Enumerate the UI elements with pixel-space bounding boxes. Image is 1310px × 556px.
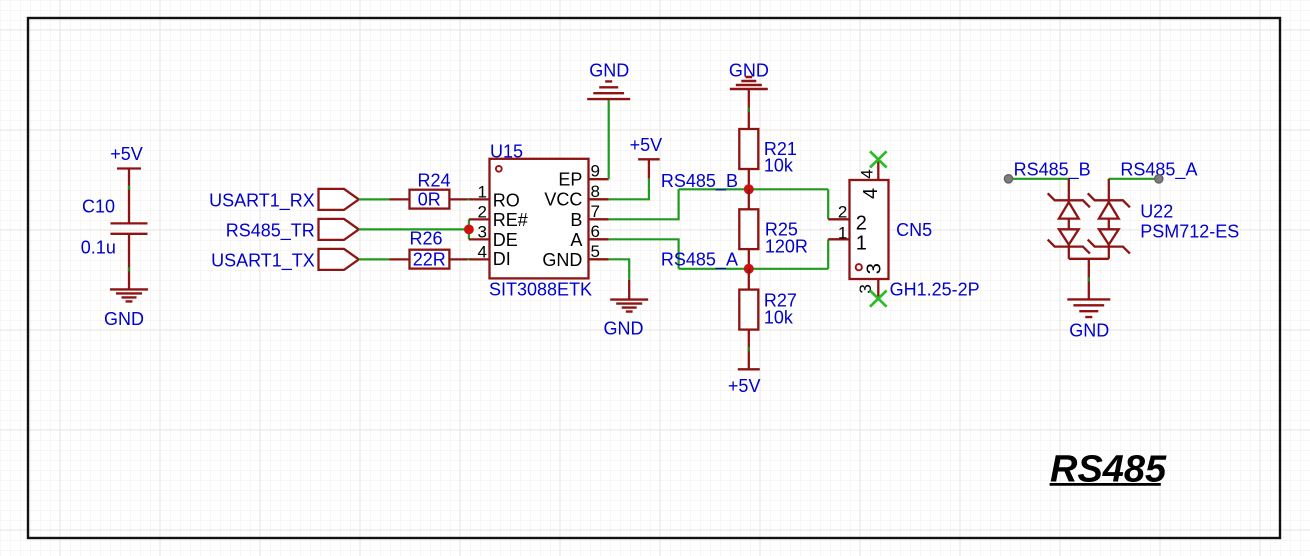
wire C10 to GND tick	[128, 267, 130, 271]
wire pin9 to GND	[608, 99, 610, 179]
pin 8 VCC	[544, 182, 608, 210]
svg-text:1: 1	[478, 182, 487, 201]
svg-text:120R: 120R	[765, 237, 808, 257]
wire pin8 to +5V	[609, 178, 649, 199]
tick pin4	[467, 258, 471, 260]
svg-text:10k: 10k	[764, 155, 794, 175]
svg-text:4: 4	[478, 242, 487, 261]
svg-text:GND: GND	[589, 60, 629, 80]
resistor R27 10k	[739, 269, 797, 370]
pin 6 A	[570, 222, 608, 250]
wire RS485_A to CN5 pin1	[827, 239, 829, 268]
svg-text:CN5: CN5	[896, 220, 932, 240]
svg-text:+5V: +5V	[630, 135, 663, 155]
wire RS485_B stub	[1009, 178, 1069, 180]
svg-text:1: 1	[838, 223, 847, 242]
node dot RS485_B	[1004, 175, 1012, 183]
diode U22 PSM712-ES (left pair)	[1048, 179, 1090, 259]
resistor R24 0R	[390, 170, 470, 209]
svg-text:3: 3	[478, 222, 487, 241]
ground GND (EP)	[587, 60, 630, 99]
svg-text:USART1_TX: USART1_TX	[211, 251, 315, 272]
svg-text:EP: EP	[558, 169, 582, 189]
ground GND (C10)	[104, 289, 148, 328]
svg-text:GND: GND	[604, 318, 644, 338]
svg-text:C10: C10	[82, 196, 115, 216]
pin 5 GND	[542, 242, 608, 270]
diode U22 PSM712-ES (right pair)	[1088, 179, 1240, 259]
port USART1_TX	[211, 249, 359, 272]
svg-text:4: 4	[858, 169, 877, 178]
svg-text:VCC: VCC	[544, 190, 582, 210]
svg-text:GND: GND	[104, 309, 144, 329]
svg-text:2: 2	[838, 203, 847, 222]
svg-text:10k: 10k	[764, 307, 794, 327]
ground GND (pin5)	[604, 280, 649, 339]
pin 2 (CN5)	[828, 203, 867, 235]
svg-text:3: 3	[864, 263, 886, 274]
svg-text:8: 8	[591, 182, 600, 201]
junction RS485_B	[744, 184, 754, 194]
wire pin7 (B) to RS485_B	[609, 189, 679, 219]
pin 9 EP	[558, 161, 608, 189]
svg-text:USART1_RX: USART1_RX	[209, 191, 315, 212]
tick U22 gnd	[1088, 277, 1090, 281]
svg-text:RS485_B: RS485_B	[661, 171, 738, 192]
junction RS485_TR	[464, 225, 474, 235]
pin 1 (CN5)	[828, 223, 867, 254]
node dot RS485_A	[1155, 175, 1163, 183]
pin 3 (CN5)	[856, 263, 886, 298]
svg-text:0.1u: 0.1u	[81, 237, 116, 257]
pin 7 B	[570, 202, 608, 230]
svg-text:RS485_A: RS485_A	[661, 250, 738, 271]
wire RS485_B to CN5 pin2	[827, 189, 829, 219]
ground GND (R21 top)	[729, 60, 769, 129]
svg-text:GND: GND	[1069, 320, 1109, 340]
svg-text:U22: U22	[1140, 201, 1173, 221]
wire net RS485_A	[679, 268, 829, 270]
svg-text:DE: DE	[493, 230, 518, 250]
svg-text:R26: R26	[409, 229, 442, 249]
svg-text:22R: 22R	[413, 249, 446, 269]
wire USART1_RX to R24	[359, 198, 390, 200]
svg-text:4: 4	[860, 188, 882, 199]
wire net RS485_B	[679, 188, 829, 190]
svg-text:SIT3088ETK: SIT3088ETK	[489, 279, 592, 299]
svg-text:2: 2	[856, 213, 867, 235]
ground GND (U22)	[1067, 299, 1110, 340]
tick pin1	[467, 198, 471, 200]
resistor R21 10k	[739, 129, 797, 189]
svg-text:U15: U15	[490, 141, 523, 161]
svg-text:+5V: +5V	[728, 376, 761, 396]
title RS485	[1050, 449, 1167, 491]
wire USART1_TX to R26	[359, 258, 390, 260]
svg-text:1: 1	[856, 233, 867, 255]
svg-text:9: 9	[591, 161, 600, 180]
port USART1_RX	[209, 189, 359, 212]
power +5V (VCC pin8)	[630, 135, 663, 178]
svg-text:RE#: RE#	[493, 210, 528, 230]
svg-text:A: A	[570, 230, 582, 250]
port RS485_TR	[226, 219, 359, 242]
svg-text:5: 5	[591, 242, 600, 261]
wire U22 common	[1069, 259, 1109, 300]
wire +5V to C10 tick	[128, 186, 130, 190]
svg-text:0R: 0R	[418, 189, 441, 209]
junction RS485_A	[744, 264, 754, 274]
op-amp U15 SIT3088ETK body	[489, 141, 592, 299]
wire pin6 (A) to RS485_A	[609, 239, 679, 268]
svg-text:R24: R24	[417, 170, 450, 190]
resistor R25 120R	[739, 189, 808, 268]
no-connect X (CN5 pin3)	[870, 291, 887, 307]
svg-text:6: 6	[591, 222, 600, 241]
power +5V (R27 bottom)	[728, 369, 761, 396]
pin 4 (CN5)	[858, 159, 883, 199]
svg-text:RO: RO	[493, 191, 520, 211]
wire RS485_A stub	[1109, 178, 1159, 180]
svg-text:+5V: +5V	[110, 144, 143, 164]
pin 2 RE#	[469, 202, 528, 229]
svg-text:2: 2	[478, 202, 487, 221]
svg-text:PSM712-ES: PSM712-ES	[1140, 221, 1239, 241]
connector CN5 GH1.25-2P body	[850, 180, 980, 299]
tick R27 bottom	[748, 347, 750, 351]
svg-text:DI: DI	[493, 249, 511, 269]
svg-text:GH1.25-2P: GH1.25-2P	[890, 279, 980, 299]
capacitor C10 0.1u	[81, 196, 148, 289]
pin 3 DE	[469, 222, 518, 249]
svg-text:7: 7	[591, 202, 600, 221]
pin 1 RO	[470, 182, 520, 210]
svg-text:GND: GND	[542, 250, 582, 270]
wire RS485_TR to U15 pins 2,3	[359, 228, 469, 230]
power +5V (C10)	[110, 144, 143, 224]
pin 4 DI	[470, 242, 511, 269]
svg-text:RS485_TR: RS485_TR	[226, 221, 315, 242]
svg-text:RS485_B: RS485_B	[1014, 159, 1091, 180]
no-connect X (CN5 pin4)	[870, 151, 887, 167]
wire pin2-pin3 tie	[468, 219, 470, 239]
resistor R26 22R	[390, 229, 470, 270]
tick R21 top	[748, 108, 750, 112]
svg-text:B: B	[570, 210, 582, 230]
wire pin5 to GND	[609, 259, 630, 280]
